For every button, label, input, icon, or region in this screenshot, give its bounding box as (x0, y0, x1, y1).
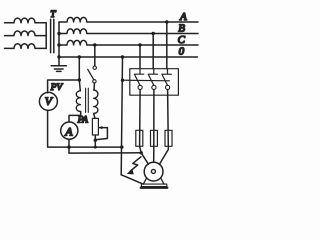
svg-text:PV: PV (50, 83, 64, 93)
regulating transformer right winding (94, 90, 98, 114)
svg-text:B: B (178, 23, 185, 35)
node: winding-drop junction on line 0 (78, 55, 81, 58)
node: knife-drop junction on line C (93, 43, 96, 46)
wire: knife switch drop from line C (94, 45, 96, 66)
regulating transformer left winding (76, 91, 80, 112)
wire: drop from line C to switch (139, 45, 141, 69)
node: PV-top junction (78, 78, 81, 81)
switch linkage bar (123, 79, 170, 82)
rheostat R body (92, 118, 98, 135)
wire: wiper tail (95, 128, 107, 140)
wire: drop from line 0 (121, 57, 122, 175)
svg-text:C: C (178, 34, 186, 46)
motor pedestal (143, 178, 164, 184)
wire: ammeter top lead to winding bottom (69, 112, 81, 123)
ammeter PA circle (61, 122, 78, 139)
knife switch SA upper terminal (93, 66, 96, 69)
node: bus-C junction (57, 43, 60, 46)
fuse F3 body (165, 130, 172, 146)
wire: primary feed phase 2 with winding (5, 31, 47, 36)
wire: knife switch to regulating winding (93, 83, 95, 90)
wire: rheostat bottom stub (94, 135, 96, 147)
motor shaft dot (151, 169, 155, 173)
wire: primary star bus of transformer T (45, 23, 47, 49)
svg-text:PA: PA (77, 116, 89, 126)
switch pole 1 contact bar (134, 69, 143, 75)
regulating transformer core (86, 88, 89, 112)
switch pole 1 blade (135, 75, 140, 86)
switch pole 3 contact bar (162, 69, 171, 75)
svg-text:V: V (45, 94, 54, 108)
wire: switch pole1 to fuse F1 (140, 90, 142, 153)
wire: drop from line A to switch (166, 22, 168, 69)
voltmeter PV circle (39, 92, 57, 110)
node: B-drop junction (152, 32, 155, 35)
node: ammeter-Y1 junction (67, 145, 70, 148)
node: neutral-ground junction (57, 55, 60, 58)
node: rheostat bottom junction (94, 139, 97, 142)
switch pole 2 blade (148, 75, 153, 86)
motor M housing circle (144, 162, 163, 181)
switch pole 1 hinge circle (138, 85, 142, 89)
knife switch SA lower terminal (93, 80, 96, 83)
wire: drop from line 0 to regulating transformer (79, 57, 80, 91)
node: 0-drop junction (121, 55, 124, 58)
rheostat wiper arrow (100, 127, 108, 129)
wire: neutral line 0 (59, 56, 198, 58)
wire: Y2 run to motor terminal (69, 152, 141, 154)
switch QS enclosure box (130, 69, 179, 96)
svg-text:A: A (179, 11, 187, 23)
breakdown lightning arrow (130, 157, 141, 171)
node: bus-B junction (57, 32, 60, 35)
wire: secondary winding phase B and line B (59, 29, 198, 34)
node: linkage to 0-drop junction (121, 79, 124, 82)
node: motor phase-1 terminal junction (140, 151, 143, 154)
fuse F2 body (151, 130, 158, 146)
node: rheostat-Y1 junction (94, 146, 97, 149)
wire: secondary winding phase A and line A (59, 17, 198, 22)
motor base plate (141, 184, 166, 187)
switch pole 2 contact bar (148, 69, 157, 75)
fuse F1 body (136, 130, 143, 146)
transformer T core (51, 19, 54, 52)
wire: voltmeter bottom lead (48, 110, 122, 147)
wire: switch pole2 through fuse F2 to motor (153, 90, 155, 163)
node: A-drop junction (165, 20, 168, 23)
svg-text:A: A (64, 124, 73, 138)
node: Y1 end junction on 0-drop (120, 145, 123, 148)
wire: primary feed phase 3 with winding (5, 44, 47, 49)
wire: ammeter bottom lead (68, 139, 70, 153)
wire: drop from line B to switch (152, 34, 154, 69)
wire: secondary winding phase C and line C (59, 40, 198, 45)
knife switch SA blade (88, 69, 94, 79)
wire: winding bottom to rheostat (94, 114, 95, 119)
switch pole 3 blade (162, 75, 167, 86)
svg-text:T: T (50, 10, 56, 20)
ground (51, 57, 66, 71)
node: C-drop junction (138, 43, 141, 46)
switch pole 2 hinge circle (152, 85, 156, 89)
wire: primary feed phase 1 with winding (5, 18, 47, 23)
wire: switch pole3 through fuse F3 to motor (159, 90, 168, 165)
svg-text:0: 0 (179, 46, 185, 58)
wire: F1 junction diagonal to motor (141, 153, 148, 164)
switch pole 3 hinge circle (166, 85, 170, 89)
wire: frame ground diagonal to 0-drop (121, 175, 142, 184)
wire: secondary star bus down to neutral (58, 22, 60, 57)
wire: voltmeter top lead (48, 80, 80, 93)
